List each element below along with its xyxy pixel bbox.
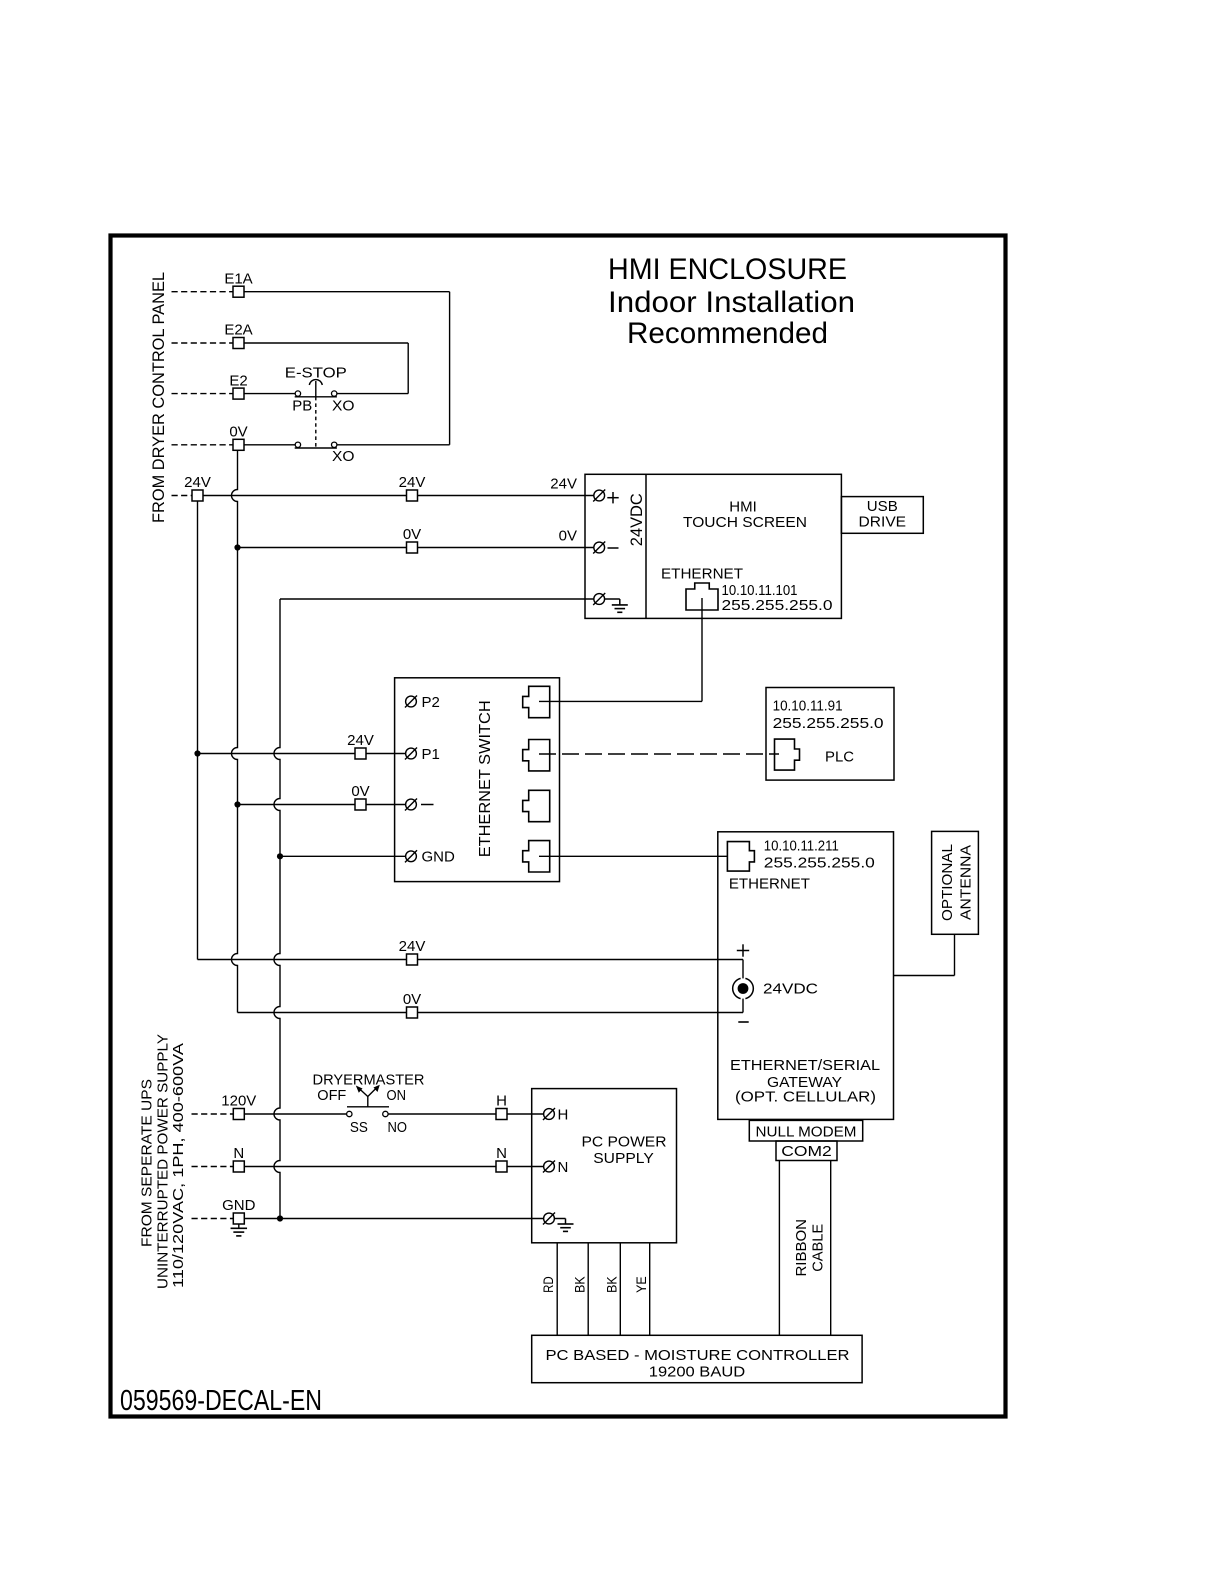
svg-text:P2: P2 [422, 694, 440, 711]
svg-text:H: H [496, 1093, 507, 1110]
svg-text:(OPT. CELLULAR): (OPT. CELLULAR) [735, 1089, 876, 1106]
svg-text:TOUCH SCREEN: TOUCH SCREEN [683, 514, 807, 531]
svg-text:HMI: HMI [729, 499, 757, 516]
svg-text:24VDC: 24VDC [627, 493, 646, 546]
svg-text:OFF: OFF [317, 1087, 346, 1104]
svg-text:ETHERNET SWITCH: ETHERNET SWITCH [477, 700, 494, 857]
svg-text:0V: 0V [229, 424, 247, 441]
svg-text:FROM SEPERATE UPS: FROM SEPERATE UPS [139, 1079, 156, 1247]
svg-text:110/120VAC, 1PH, 400-600VA: 110/120VAC, 1PH, 400-600VA [170, 1043, 187, 1288]
svg-text:P1: P1 [422, 746, 440, 763]
svg-text:RD: RD [541, 1276, 556, 1293]
svg-text:NULL MODEM: NULL MODEM [756, 1124, 857, 1141]
svg-text:24V: 24V [399, 474, 426, 491]
svg-text:PB: PB [292, 398, 312, 415]
svg-text:10.10.11.91: 10.10.11.91 [773, 699, 843, 715]
svg-text:0V: 0V [403, 526, 421, 543]
svg-text:ETHERNET: ETHERNET [729, 876, 810, 893]
svg-text:GND: GND [422, 849, 456, 866]
svg-text:DRYERMASTER: DRYERMASTER [313, 1072, 425, 1089]
svg-text:PLC: PLC [825, 749, 854, 766]
svg-text:H: H [558, 1106, 569, 1123]
svg-text:Recommended: Recommended [627, 317, 828, 350]
svg-text:YE: YE [634, 1276, 649, 1293]
svg-text:ETHERNET/SERIAL: ETHERNET/SERIAL [730, 1057, 880, 1074]
svg-text:GND: GND [222, 1197, 256, 1214]
svg-text:E2A: E2A [224, 322, 252, 339]
svg-text:120V: 120V [221, 1093, 256, 1110]
svg-text:UNINTERRUPTED POWER SUPPLY: UNINTERRUPTED POWER SUPPLY [155, 1034, 172, 1289]
svg-text:E-STOP: E-STOP [285, 365, 347, 382]
svg-text:HMI ENCLOSURE: HMI ENCLOSURE [608, 253, 847, 286]
svg-text:N: N [233, 1145, 244, 1162]
svg-text:RIBBON: RIBBON [793, 1219, 810, 1277]
svg-text:BK: BK [573, 1276, 588, 1293]
svg-text:DRIVE: DRIVE [859, 514, 907, 531]
svg-text:19200 BAUD: 19200 BAUD [649, 1364, 746, 1381]
svg-text:XO: XO [332, 398, 355, 415]
svg-text:255.255.255.0: 255.255.255.0 [764, 856, 875, 872]
svg-text:N: N [496, 1145, 507, 1162]
svg-text:24VDC: 24VDC [763, 981, 818, 998]
svg-text:USB: USB [867, 498, 898, 515]
svg-text:PC BASED - MOISTURE CONTROLLER: PC BASED - MOISTURE CONTROLLER [546, 1347, 850, 1364]
svg-text:FROM DRYER CONTROL PANEL: FROM DRYER CONTROL PANEL [149, 272, 168, 523]
svg-text:24V: 24V [399, 938, 426, 955]
svg-text:ON: ON [387, 1087, 407, 1104]
svg-text:24V: 24V [550, 475, 577, 492]
svg-text:10.10.11.211: 10.10.11.211 [764, 839, 839, 855]
svg-text:PC POWER: PC POWER [582, 1134, 667, 1151]
svg-text:CABLE: CABLE [810, 1224, 827, 1272]
svg-text:XO: XO [332, 448, 355, 465]
svg-text:0V: 0V [403, 991, 421, 1008]
svg-text:E1A: E1A [224, 270, 252, 287]
svg-text:255.255.255.0: 255.255.255.0 [722, 598, 833, 614]
svg-text:ETHERNET: ETHERNET [661, 566, 743, 583]
svg-text:E2: E2 [229, 372, 247, 389]
svg-text:BK: BK [604, 1276, 619, 1293]
svg-text:COM2: COM2 [781, 1143, 832, 1160]
svg-text:059569-DECAL-EN: 059569-DECAL-EN [120, 1385, 322, 1417]
svg-text:NO: NO [387, 1119, 407, 1136]
svg-text:OPTIONAL: OPTIONAL [939, 844, 956, 921]
svg-text:255.255.255.0: 255.255.255.0 [773, 716, 884, 732]
svg-text:SUPPLY: SUPPLY [593, 1150, 654, 1167]
svg-text:24V: 24V [184, 474, 211, 491]
svg-text:10.10.11.101: 10.10.11.101 [722, 583, 798, 599]
svg-text:Indoor Installation: Indoor Installation [608, 286, 855, 319]
svg-text:0V: 0V [559, 527, 577, 544]
svg-text:24V: 24V [347, 732, 374, 749]
svg-text:N: N [558, 1159, 569, 1176]
svg-text:0V: 0V [351, 783, 369, 800]
svg-text:ANTENNA: ANTENNA [958, 845, 975, 920]
svg-text:SS: SS [350, 1119, 368, 1136]
